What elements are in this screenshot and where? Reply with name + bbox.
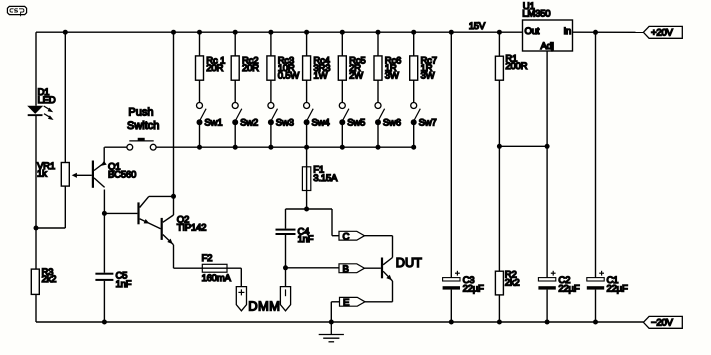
svg-text:DUT: DUT bbox=[396, 256, 422, 270]
junction switch rail / Sw2 bbox=[233, 145, 238, 150]
junction switch rail / Sw7 bbox=[411, 145, 416, 150]
resistor R2 bbox=[495, 271, 503, 295]
junction top rail / Rc3 bbox=[268, 30, 273, 35]
junction Adj column link bbox=[545, 144, 550, 149]
svg-text:Switch: Switch bbox=[127, 120, 159, 132]
resistor R3 bbox=[31, 269, 39, 294]
svg-text:1k: 1k bbox=[37, 169, 47, 180]
wire Q1 collector down bbox=[103, 190, 105, 214]
resistor Rc5 bbox=[338, 56, 346, 80]
op-amp U1 LM350 regulator box bbox=[523, 20, 573, 51]
junction top rail / Rc7 bbox=[411, 30, 416, 35]
junction top rail / Rc6 bbox=[376, 30, 381, 35]
junction bottom rail / ground bbox=[329, 320, 334, 325]
wire R1 to R2 bbox=[498, 80, 500, 271]
DMM plus probe bbox=[236, 287, 246, 311]
wire Rc1 top bbox=[199, 32, 201, 56]
switch Sw2 bbox=[232, 103, 242, 126]
wire Sw3 to switch rail bbox=[270, 125, 272, 147]
svg-text:B: B bbox=[343, 264, 349, 275]
wire C4 bottom to I probe bbox=[285, 235, 287, 287]
wire Adj pin down to C2 bbox=[546, 51, 548, 278]
ground bbox=[319, 322, 344, 342]
svg-text:22µF: 22µF bbox=[463, 283, 484, 294]
svg-text:+20V: +20V bbox=[651, 28, 674, 39]
junction Q2 collectors bbox=[171, 194, 176, 199]
svg-text:Sw4: Sw4 bbox=[312, 117, 331, 128]
wire DUT emitter to E flag bbox=[365, 301, 393, 303]
wire Rc1 to Sw1 bbox=[199, 80, 201, 102]
fuse F1 bbox=[302, 167, 310, 191]
junction bottom rail / C3 bbox=[449, 320, 454, 325]
switch Sw4 bbox=[304, 103, 314, 126]
wire Rc3 to Sw3 bbox=[270, 80, 272, 102]
node C terminal flag bbox=[339, 231, 365, 240]
node B terminal flag bbox=[339, 264, 365, 273]
wire Q2 collector column from top rail bbox=[173, 32, 175, 196]
VR1 wiper arrow bbox=[72, 173, 77, 178]
junction switch rail / Sw1 bbox=[197, 145, 202, 150]
svg-text:−20V: −20V bbox=[651, 318, 674, 329]
wire Q1 base to VR1 wiper bbox=[77, 174, 92, 176]
svg-text:2W: 2W bbox=[349, 70, 364, 81]
svg-text:3W: 3W bbox=[421, 70, 436, 81]
svg-text:1nF: 1nF bbox=[116, 279, 132, 290]
switch Sw7 bbox=[411, 103, 421, 126]
wire Q2 base bbox=[104, 212, 137, 214]
junction top rail / Rc5 bbox=[340, 30, 345, 35]
wire C3 top bbox=[450, 32, 452, 277]
svg-text:TIP142: TIP142 bbox=[177, 223, 206, 234]
junction top rail / Q2 column bbox=[171, 30, 176, 35]
node -20V flag bbox=[643, 316, 682, 328]
wire Rc7 to Sw7 bbox=[413, 80, 415, 102]
svg-text:C: C bbox=[343, 231, 350, 242]
svg-text:1nF: 1nF bbox=[298, 234, 314, 245]
svg-text:22µF: 22µF bbox=[558, 283, 579, 294]
wire DUT collector down bbox=[392, 236, 394, 258]
switch Sw1 bbox=[197, 103, 207, 126]
transistor DUT bbox=[381, 258, 393, 282]
svg-text:3.15A: 3.15A bbox=[313, 173, 338, 184]
svg-text:Sw7: Sw7 bbox=[419, 117, 437, 128]
DUT emitter arrow bbox=[386, 275, 392, 281]
junction In rail / C1 bbox=[593, 30, 598, 35]
junction top rail / Rc4 bbox=[304, 30, 309, 35]
junction Q1 collector / C5 / Q2 base bbox=[102, 211, 107, 216]
wire C2 bottom bbox=[546, 290, 548, 322]
wire left rail LED to R3 bbox=[35, 116, 37, 269]
capacitor C2 (electrolytic) bbox=[538, 271, 555, 290]
wire Q2 emitter down bbox=[173, 245, 175, 268]
resistor Rc1 bbox=[196, 56, 204, 80]
junction top rail / VR1 bbox=[63, 30, 68, 35]
resistor Rc6 bbox=[374, 56, 382, 80]
wire C5 top bbox=[103, 213, 105, 272]
svg-text:160mA: 160mA bbox=[202, 273, 232, 284]
wire left rail above LED bbox=[35, 32, 37, 106]
wire R1 top bbox=[498, 32, 500, 56]
wire F1 column bbox=[306, 147, 308, 209]
transistor Q1 BC560 bbox=[92, 161, 105, 188]
capacitor C5 bbox=[95, 273, 113, 281]
resistor Rc3 bbox=[267, 56, 275, 80]
wire C5 bottom bbox=[103, 281, 105, 322]
node +20V flag bbox=[643, 26, 682, 38]
wire Sw2 to switch rail bbox=[234, 125, 236, 147]
junction bottom rail / C5 bbox=[102, 320, 107, 325]
junction switch rail / Sw5 bbox=[340, 145, 345, 150]
junction top rail / R1 bbox=[497, 30, 502, 35]
wire Rc4 to Sw4 bbox=[306, 80, 308, 102]
junction switch rail / Sw3 bbox=[268, 145, 273, 150]
Q2 internal emitter arrow bbox=[144, 219, 150, 224]
fuse F2 bbox=[202, 264, 227, 272]
capacitor C1 (electrolytic) bbox=[587, 271, 604, 290]
wire VR1 bottom to left rail bbox=[36, 227, 65, 229]
wire VR1 top bbox=[64, 32, 66, 162]
wire top rail right segment (In to +20V) bbox=[573, 31, 644, 33]
wire Q1 emitter up bbox=[103, 147, 105, 163]
junction top rail / C3 bbox=[449, 30, 454, 35]
junction C4 / B / I probe bbox=[283, 265, 288, 270]
wire C flag stub bbox=[332, 235, 339, 237]
svg-text:Push: Push bbox=[128, 107, 153, 119]
svg-text:E: E bbox=[343, 298, 349, 309]
wire left rail R3 to bottom rail bbox=[35, 294, 37, 322]
capacitor C3 (electrolytic) bbox=[443, 271, 460, 290]
wire Rc7 top bbox=[413, 32, 415, 56]
junction switch rail / Sw6 bbox=[376, 145, 381, 150]
potentiometer VR1 bbox=[61, 163, 69, 187]
wire to push switch left contact bbox=[104, 146, 127, 148]
junction bottom rail / R2 bbox=[497, 320, 502, 325]
wire Sw5 to switch rail bbox=[341, 125, 343, 147]
wire Rc2 to Sw2 bbox=[234, 80, 236, 102]
svg-text:20R: 20R bbox=[242, 63, 259, 74]
wire Sw6 to switch rail bbox=[377, 125, 379, 147]
wire B flag to DUT base bbox=[365, 267, 381, 269]
wire E to bottom rail bbox=[330, 302, 332, 322]
svg-text:2k2: 2k2 bbox=[505, 278, 520, 289]
wire Rc2 top bbox=[234, 32, 236, 56]
wire DUT emitter down bbox=[392, 281, 394, 302]
capacitor C4 bbox=[276, 229, 296, 235]
junction left rail / VR1 bottom bbox=[34, 226, 39, 231]
wire F1 bottom horizontal bbox=[286, 208, 333, 210]
wire Q2 emitter to F2 to DMM+ bbox=[174, 267, 242, 269]
svg-text:Sw3: Sw3 bbox=[276, 117, 294, 128]
wire Rc3 top bbox=[270, 32, 272, 56]
wire C3 bottom bbox=[450, 290, 452, 322]
svg-text:200R: 200R bbox=[505, 61, 527, 72]
wire C1 top bbox=[595, 32, 597, 277]
wire switch bottom rail bbox=[156, 146, 414, 148]
svg-text:2k2: 2k2 bbox=[42, 274, 57, 285]
ESP logo bbox=[7, 6, 26, 16]
resistor Rc2 bbox=[231, 56, 239, 80]
wire Sw4 to switch rail bbox=[306, 125, 308, 147]
Q1 emitter arrow (PNP) bbox=[101, 161, 107, 166]
svg-text:Sw2: Sw2 bbox=[240, 117, 258, 128]
DMM current probe bbox=[280, 287, 290, 311]
svg-text:22µF: 22µF bbox=[607, 283, 628, 294]
wire C1 bottom bbox=[595, 290, 597, 322]
svg-text:LED: LED bbox=[38, 95, 56, 106]
push switch contacts bbox=[127, 144, 133, 150]
junction below F1 bbox=[304, 207, 309, 212]
wire Sw1 to switch rail bbox=[199, 125, 201, 147]
wire down to DMM + probe bbox=[240, 268, 242, 286]
junction R1/R2 column to Adj link bbox=[497, 144, 502, 149]
junction top rail / Rc2 bbox=[233, 30, 238, 35]
wire Rc6 top bbox=[377, 32, 379, 56]
junction bottom rail / C1 bbox=[593, 320, 598, 325]
junction bottom rail / C2 bbox=[545, 320, 550, 325]
Q2 emitter arrow bbox=[167, 239, 173, 245]
push switch actuator bbox=[129, 140, 153, 142]
node E terminal flag bbox=[340, 297, 366, 306]
wire C flag to DUT collector bbox=[365, 235, 393, 237]
resistor Rc4 bbox=[303, 56, 311, 80]
resistor Rc7 bbox=[410, 56, 418, 80]
svg-text:15V: 15V bbox=[469, 21, 486, 32]
wire Sw7 to switch rail bbox=[413, 125, 415, 147]
svg-text:Sw6: Sw6 bbox=[383, 117, 401, 128]
svg-text:Sw5: Sw5 bbox=[347, 117, 365, 128]
switch Sw5 bbox=[339, 103, 349, 126]
wire Rc5 to Sw5 bbox=[341, 80, 343, 102]
svg-text:LM350: LM350 bbox=[522, 9, 550, 20]
svg-text:DMM: DMM bbox=[248, 299, 280, 314]
switch Sw3 bbox=[268, 103, 278, 126]
junction top rail / Rc1 bbox=[197, 30, 202, 35]
svg-text:In: In bbox=[563, 26, 571, 37]
wire VR1 bottom down bbox=[64, 186, 66, 228]
svg-text:0.5W: 0.5W bbox=[278, 70, 301, 81]
diode D1 LED bbox=[27, 106, 53, 120]
resistor R1 bbox=[495, 56, 503, 80]
transistor Q2 TIP142 (darlington) bbox=[137, 196, 173, 244]
svg-text:1W: 1W bbox=[313, 70, 328, 81]
svg-text:3W: 3W bbox=[385, 70, 400, 81]
junction switch rail / Sw4 bbox=[304, 145, 309, 150]
svg-text:Out: Out bbox=[525, 26, 540, 37]
wire Rc6 to Sw6 bbox=[377, 80, 379, 102]
svg-text:20R: 20R bbox=[206, 63, 223, 74]
svg-text:F2: F2 bbox=[202, 253, 213, 264]
wire C4 top bbox=[285, 209, 287, 229]
wire to C flag bbox=[331, 209, 333, 236]
wire top rail left segment bbox=[36, 31, 523, 33]
wire Rc5 top bbox=[341, 32, 343, 56]
wire E flag to ground column bbox=[331, 301, 339, 303]
wire R2 bottom bbox=[498, 295, 500, 322]
switch Sw6 bbox=[375, 103, 385, 126]
wire Rc4 top bbox=[306, 32, 308, 56]
svg-text:Adj: Adj bbox=[541, 41, 554, 52]
svg-text:BC560: BC560 bbox=[108, 169, 136, 180]
wire to B terminal flag bbox=[286, 267, 340, 269]
wire bottom rail bbox=[36, 321, 643, 323]
wire Adj link bbox=[499, 145, 547, 147]
svg-text:Sw1: Sw1 bbox=[204, 117, 222, 128]
